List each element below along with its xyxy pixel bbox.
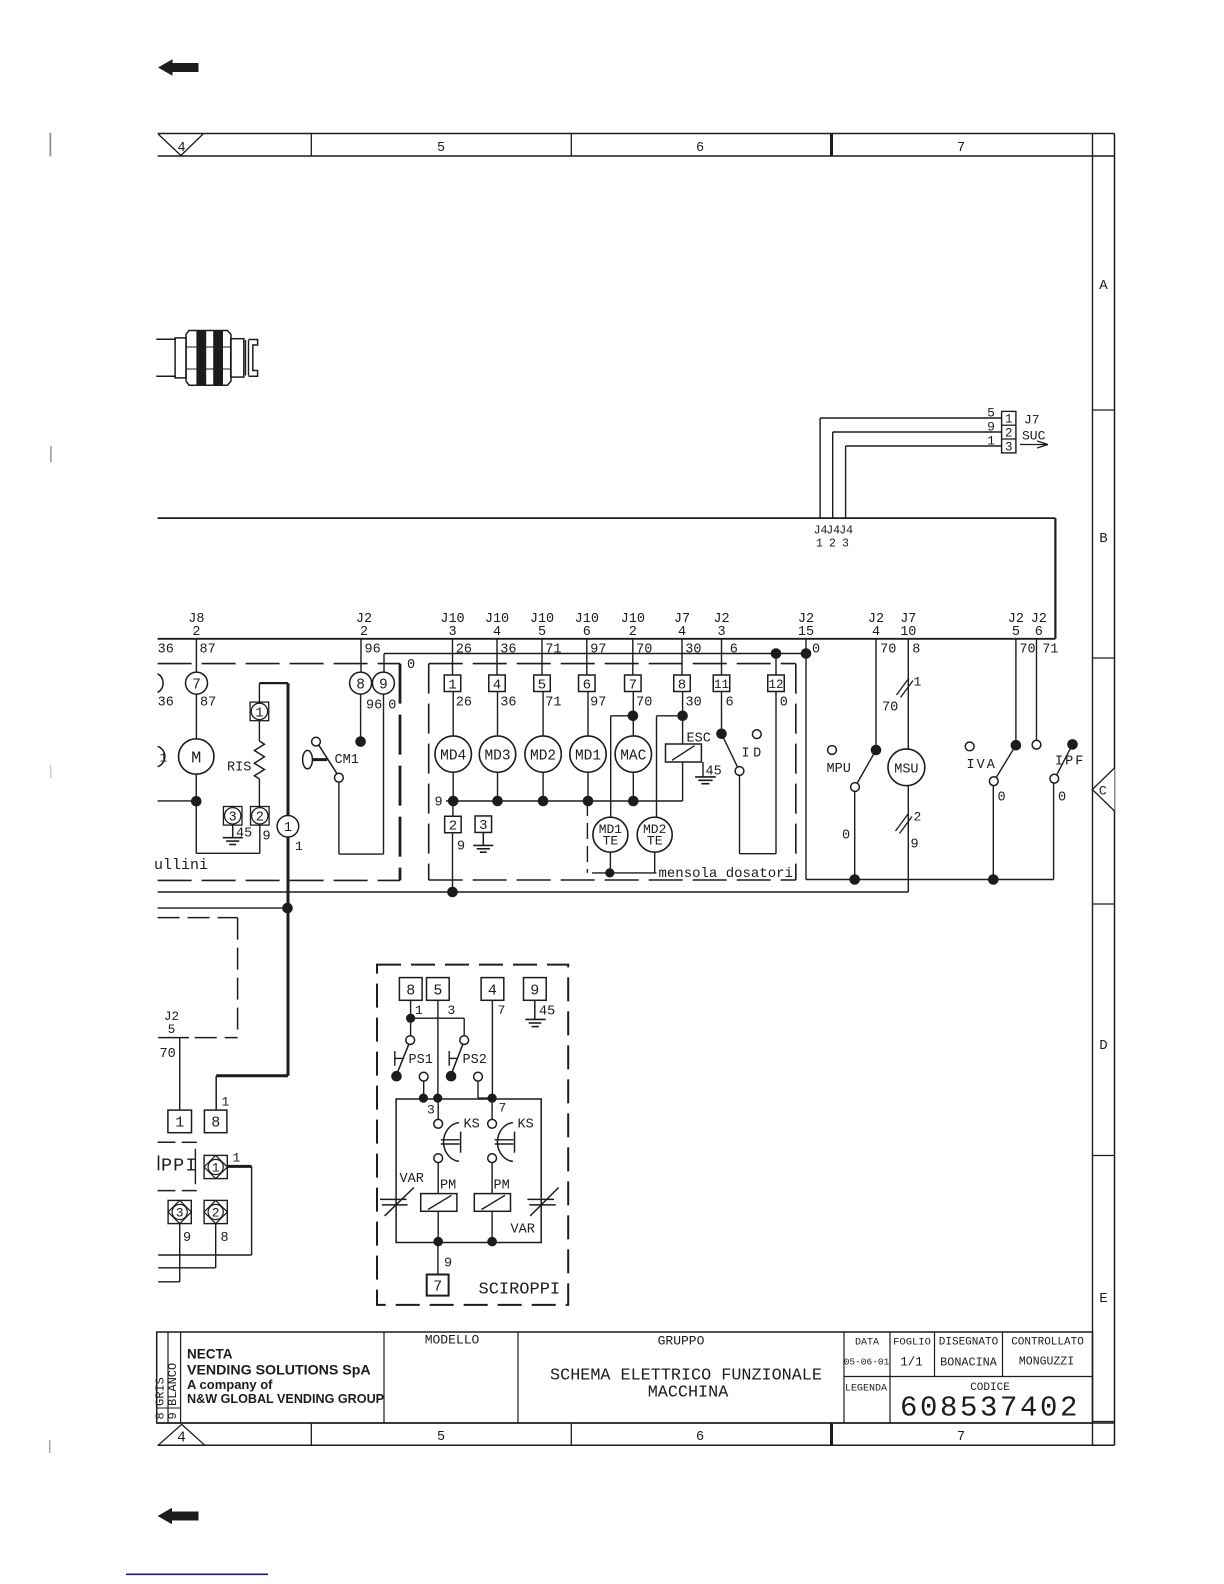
- svg-text:MD1: MD1: [575, 748, 601, 764]
- svg-text:30: 30: [685, 643, 701, 658]
- svg-text:C: C: [1099, 784, 1107, 799]
- pin box 1 (large): [168, 1110, 192, 1133]
- svg-text:1: 1: [160, 751, 168, 766]
- level sensor KS 2: [488, 1099, 534, 1163]
- svg-text:2: 2: [629, 625, 637, 640]
- svg-text:SCIROPPI: SCIROPPI: [479, 1281, 561, 1300]
- motor MD2: [525, 736, 561, 772]
- junction IVA net 0: [988, 874, 999, 885]
- svg-text:5: 5: [1012, 625, 1020, 640]
- motor MD3: [479, 736, 515, 772]
- svg-text:11: 11: [714, 678, 729, 692]
- dashed enclosure gruppi (clipped): [158, 1142, 197, 1190]
- svg-text:8: 8: [221, 1231, 229, 1246]
- svg-text:J7: J7: [1024, 413, 1040, 428]
- resistor RIS: [227, 741, 264, 779]
- thick wire net 1 riser: [287, 683, 290, 815]
- keyed pin diamond 2: [204, 1200, 227, 1223]
- ground at pin 9: [525, 1000, 545, 1026]
- switch IPF: [1032, 739, 1085, 783]
- svg-text:70: 70: [880, 643, 896, 658]
- svg-text:0: 0: [780, 696, 788, 711]
- svg-text:DATA: DATA: [855, 1338, 879, 1349]
- svg-text:1: 1: [914, 675, 922, 690]
- relay ESC: [666, 732, 711, 763]
- wire pin4 drop: [491, 1000, 493, 1098]
- level sensor KS 1: [434, 1099, 480, 1163]
- pin circle 7: [186, 672, 208, 694]
- svg-text:CM1: CM1: [335, 753, 359, 768]
- svg-text:70: 70: [160, 1047, 176, 1062]
- junction MD4 on net 9: [448, 796, 459, 807]
- svg-text:7: 7: [957, 141, 965, 156]
- wire net 0 horizontal: [384, 653, 806, 655]
- svg-text:2: 2: [192, 625, 200, 640]
- svg-text:MPU: MPU: [827, 762, 851, 777]
- svg-text:26: 26: [456, 696, 472, 711]
- svg-text:1: 1: [233, 1151, 241, 1166]
- svg-text:FOGLIO: FOGLIO: [893, 1337, 931, 1349]
- svg-text:30: 30: [686, 696, 702, 711]
- svg-text:1: 1: [448, 677, 456, 693]
- svg-text:4: 4: [493, 625, 501, 640]
- wire pin9 up to net 0: [383, 654, 385, 673]
- svg-text:2: 2: [212, 1206, 220, 1221]
- wire net row B: [158, 907, 288, 909]
- svg-text:8: 8: [406, 983, 415, 1000]
- wire J7-4 to pin 8 box: [681, 639, 683, 675]
- svg-text:4: 4: [177, 1431, 186, 1447]
- wire J7 pin2 to J4-2: [833, 432, 1002, 518]
- svg-text:1: 1: [1005, 413, 1013, 427]
- junction MD1 on net 9: [583, 796, 594, 807]
- svg-text:5: 5: [433, 983, 442, 1000]
- svg-text:6: 6: [730, 643, 738, 658]
- wire M to node: [195, 774, 197, 801]
- svg-text:8: 8: [211, 1115, 220, 1132]
- company block NECTA: [187, 1347, 384, 1406]
- svg-text:7: 7: [957, 1430, 965, 1445]
- junction PM2: [487, 1237, 497, 1247]
- row marker C notch: [1092, 768, 1114, 811]
- wire ESC tap to MD2TE: [657, 716, 683, 818]
- pin circle 9: [372, 672, 394, 694]
- thermal sensor MD2 TE: [637, 817, 672, 852]
- svg-text:70: 70: [1019, 643, 1035, 658]
- svg-text:5: 5: [987, 406, 995, 421]
- svg-text:45: 45: [539, 1005, 555, 1020]
- svg-text:1: 1: [415, 1003, 423, 1018]
- svg-text:6: 6: [1035, 625, 1043, 640]
- wire to pin 7 bottom: [437, 1243, 439, 1275]
- svg-text:3: 3: [427, 1103, 435, 1118]
- wire resistor to boxed2: [258, 779, 260, 807]
- junction on net 0 at J2-15: [801, 648, 812, 659]
- svg-text:9: 9: [435, 796, 443, 811]
- pin box 7: [625, 675, 642, 693]
- svg-text:PM: PM: [494, 1179, 510, 1194]
- label PPI (clipped): [159, 1156, 197, 1177]
- svg-text:12: 12: [768, 678, 783, 692]
- pin circle 8: [350, 672, 372, 694]
- svg-text:2: 2: [914, 810, 922, 825]
- svg-text:5: 5: [538, 677, 546, 693]
- pin box 2 below MD4: [445, 801, 462, 835]
- separator line: [194, 1149, 196, 1184]
- dashed enclosure mensola dosatori: [429, 664, 796, 880]
- junction MD3 on net 9: [492, 796, 503, 807]
- wire MD3 to net 9: [497, 772, 499, 801]
- wire main bus: [158, 638, 1056, 640]
- junction on net 0 at ID return: [771, 648, 782, 659]
- svg-text:6: 6: [583, 677, 591, 693]
- svg-text:BONACINA: BONACINA: [940, 1356, 998, 1370]
- svg-text:05-06-01: 05-06-01: [844, 1357, 890, 1368]
- wire J7-10 drop upper: [907, 639, 909, 749]
- svg-text:RIS: RIS: [227, 761, 251, 776]
- svg-text:mensola dosatori: mensola dosatori: [659, 866, 793, 882]
- svg-text:6: 6: [583, 625, 591, 640]
- svg-text:3: 3: [479, 818, 487, 834]
- motor MSU: [888, 749, 925, 786]
- ground at ESC: [695, 762, 716, 784]
- pin box 5: [534, 675, 551, 693]
- node main board box: [158, 518, 1056, 639]
- dashed enclosure frullini: [158, 664, 400, 881]
- svg-text:9: 9: [457, 840, 465, 855]
- svg-text:ESC: ESC: [687, 732, 711, 747]
- varistor VAR right: [511, 1188, 559, 1238]
- pin boxed-circle 2: [251, 807, 270, 826]
- svg-text:TE: TE: [603, 834, 619, 849]
- wire net 9 horizontal: [446, 800, 683, 802]
- svg-text:1: 1: [222, 1095, 230, 1110]
- svg-text:MSU: MSU: [894, 762, 918, 777]
- junction MAC on net 9: [628, 796, 639, 807]
- svg-text:0: 0: [842, 829, 850, 844]
- svg-text:0: 0: [388, 699, 396, 714]
- svg-text:70: 70: [636, 696, 652, 711]
- nav arrow top-left: [158, 59, 199, 75]
- svg-text:MONGUZZI: MONGUZZI: [1019, 1356, 1074, 1369]
- switch PS1: [391, 1036, 433, 1082]
- conductor-count mark 2: [896, 810, 922, 834]
- junction riser with horizontal net: [282, 903, 293, 914]
- svg-text:KS: KS: [464, 1118, 480, 1133]
- connector labels J4 1 2 3: [814, 525, 854, 551]
- wire boxed1 to resistor: [258, 721, 260, 741]
- svg-text:MACCHINA: MACCHINA: [648, 1384, 729, 1403]
- wire MD1TE to sub-box edge: [609, 852, 611, 873]
- wire boxed1 up to thick riser: [259, 683, 288, 702]
- wire color tag 9 BLANCO: [166, 1363, 180, 1420]
- junction on ESC wire: [677, 711, 688, 722]
- pin box 3 with ground: [473, 816, 493, 852]
- wire J10 to pin 7: [632, 639, 634, 675]
- wire KS2 to PM2: [491, 1163, 493, 1194]
- svg-text:9: 9: [911, 838, 919, 853]
- svg-text:VAR: VAR: [511, 1223, 535, 1238]
- svg-text:KS: KS: [518, 1118, 534, 1133]
- wire MD1 to net 9: [587, 772, 589, 801]
- svg-text:5: 5: [168, 1023, 176, 1037]
- wire MPU to net 0: [854, 791, 856, 879]
- svg-text:MD4: MD4: [440, 748, 466, 764]
- wire PM1 down: [437, 1211, 439, 1242]
- svg-text:87: 87: [200, 643, 216, 658]
- clipped motor circle 1 at page edge: [158, 746, 168, 766]
- svg-text:45: 45: [706, 765, 722, 780]
- svg-text:36: 36: [158, 696, 174, 711]
- wire J2-5 to box 1: [179, 1038, 181, 1111]
- motor MAC: [615, 736, 651, 772]
- junction MD2 on net 9: [538, 796, 549, 807]
- wire pin2 down to net line: [452, 834, 454, 892]
- svg-text:B: B: [1099, 531, 1107, 547]
- svg-text:7: 7: [499, 1101, 507, 1116]
- switch IVA: [965, 740, 1021, 786]
- svg-text:2: 2: [256, 811, 264, 826]
- svg-text:IVA: IVA: [967, 758, 997, 773]
- svg-text:LEGENDA: LEGENDA: [845, 1384, 887, 1395]
- wire J7 pin1 to J4-1: [820, 418, 1002, 518]
- svg-text:J2: J2: [164, 1010, 179, 1024]
- svg-text:2: 2: [1005, 427, 1013, 441]
- svg-text:87: 87: [200, 696, 216, 711]
- thermal sensor MD1 TE: [593, 817, 628, 852]
- svg-text:A: A: [1099, 278, 1108, 294]
- svg-text:1: 1: [175, 1115, 184, 1132]
- svg-text:MD2: MD2: [530, 748, 556, 764]
- svg-text:0: 0: [1058, 791, 1066, 806]
- wire PS1 out: [423, 1081, 425, 1098]
- conductor-count mark 1: [897, 675, 922, 698]
- svg-text:E: E: [1099, 1291, 1107, 1307]
- junction MD1TE: [605, 868, 614, 877]
- wire J10 to pin 4: [496, 639, 498, 675]
- svg-text:1: 1: [284, 821, 292, 836]
- svg-text:M: M: [191, 750, 201, 769]
- pin box 4: [489, 675, 506, 693]
- wire J10 to pin 5: [541, 639, 543, 675]
- svg-text:7: 7: [498, 1003, 506, 1018]
- wire diamond 2 return: [158, 1224, 216, 1268]
- pin box 8: [399, 978, 422, 1001]
- wire IVA to net 0: [992, 786, 994, 880]
- scanner fold ticks left margin: [50, 133, 51, 1453]
- wire J2-3 to pin 11: [721, 639, 723, 675]
- svg-text:1: 1: [295, 839, 303, 854]
- wire MAC to net 9: [632, 772, 634, 801]
- svg-text:70: 70: [882, 701, 898, 716]
- keyed pin diamond 3: [168, 1200, 191, 1223]
- dashed enclosure lower-left: [158, 918, 238, 1038]
- svg-text:VAR: VAR: [400, 1172, 424, 1187]
- svg-text:97: 97: [590, 696, 606, 711]
- svg-text:TE: TE: [647, 834, 663, 849]
- clipped component circle at page edge: [158, 674, 163, 693]
- svg-text:MAC: MAC: [620, 748, 646, 764]
- svg-text:ID: ID: [742, 747, 765, 762]
- wire PS2 out: [478, 1081, 492, 1098]
- svg-text:70: 70: [636, 643, 652, 658]
- wire IPF to net 0: [1053, 783, 1055, 879]
- svg-text:4: 4: [678, 625, 686, 640]
- svg-text:NECTA: NECTA: [187, 1347, 233, 1362]
- title block labels: [425, 1333, 1085, 1395]
- svg-text:PP: PP: [161, 1156, 185, 1177]
- junction MPU net 0: [849, 874, 860, 885]
- svg-text:1: 1: [255, 706, 263, 721]
- svg-text:5: 5: [538, 625, 546, 640]
- junction at M bottom: [191, 796, 202, 807]
- svg-text:A company of: A company of: [187, 1377, 273, 1392]
- svg-text:9: 9: [987, 420, 995, 435]
- wire diamond 3 return: [158, 1224, 180, 1282]
- ground at boxed3: [223, 825, 243, 844]
- svg-text:8: 8: [912, 643, 920, 658]
- junction net row A: [447, 887, 458, 898]
- switch MPU: [827, 745, 882, 792]
- svg-text:3: 3: [448, 625, 456, 640]
- svg-text:0: 0: [407, 658, 415, 673]
- svg-text:9: 9: [379, 677, 388, 693]
- pin box 8: [674, 675, 691, 693]
- svg-text:PS2: PS2: [463, 1053, 487, 1068]
- wire pin 4 to MD3: [497, 692, 499, 737]
- wire MSU lower: [907, 786, 909, 892]
- svg-text:608537402: 608537402: [900, 1392, 1080, 1425]
- wire J10 to pin 1: [452, 639, 454, 675]
- wire MD4 to net 9: [452, 772, 454, 801]
- pin box 5: [427, 978, 450, 1001]
- wire J2-2 to pin 8: [360, 639, 362, 672]
- svg-text:45: 45: [236, 827, 252, 842]
- connector J2 pin 5 lower: [158, 1010, 189, 1038]
- svg-text:3: 3: [229, 811, 237, 826]
- wire net row A: [158, 891, 909, 893]
- wire pin8 to ESC: [682, 692, 684, 745]
- wire PM2 down: [491, 1211, 493, 1242]
- svg-text:26: 26: [456, 643, 472, 658]
- svg-text:96: 96: [366, 699, 382, 714]
- motor MD4: [435, 736, 471, 772]
- switch PS2: [446, 1036, 487, 1082]
- svg-text:2: 2: [449, 819, 457, 835]
- svg-text:5: 5: [437, 141, 445, 156]
- wire pin8 stub with terminal dot: [355, 694, 366, 747]
- svg-text:9: 9: [530, 983, 539, 1000]
- svg-text:7: 7: [192, 677, 201, 693]
- pin box 7 bottom: [427, 1275, 449, 1296]
- wire MD2 to net 9: [542, 772, 544, 801]
- junction at pin8: [406, 1014, 415, 1023]
- pin box 8 (large): [204, 1110, 227, 1133]
- wire pin 1 to MD4: [452, 692, 454, 737]
- svg-text:36: 36: [500, 696, 516, 711]
- svg-text:15: 15: [798, 625, 814, 640]
- junctions on pump box top: [419, 1094, 497, 1103]
- svg-text:6: 6: [726, 696, 734, 711]
- svg-text:71: 71: [545, 643, 561, 658]
- motor M: [179, 739, 214, 774]
- svg-text:4: 4: [488, 983, 497, 1000]
- switch CM1: [303, 737, 359, 782]
- svg-text:J4: J4: [839, 525, 853, 538]
- svg-text:3: 3: [717, 625, 725, 640]
- wire J7 pin3 to J4-3: [846, 446, 1002, 518]
- svg-text:9: 9: [166, 1412, 180, 1419]
- wire KS1 to PM1: [437, 1163, 439, 1194]
- svg-text:D: D: [1099, 1038, 1107, 1054]
- wire pin 6 to MD1: [587, 692, 589, 737]
- svg-text:BLANCO: BLANCO: [166, 1363, 180, 1406]
- svg-text:9: 9: [263, 830, 271, 845]
- pin circle 1 on riser: [277, 815, 299, 837]
- dashed enclosure SCIROPPI: [377, 965, 568, 1305]
- svg-text:3: 3: [1005, 441, 1013, 455]
- svg-text:SUC: SUC: [1022, 429, 1046, 444]
- svg-text:10: 10: [900, 625, 916, 640]
- svg-text:4: 4: [872, 625, 880, 640]
- wire J8-2 to pin 7: [195, 639, 197, 672]
- svg-text:2: 2: [829, 538, 836, 551]
- wire pin7 to motor M: [195, 694, 197, 739]
- wire CM1 return: [339, 694, 384, 854]
- svg-text:5: 5: [437, 1430, 445, 1445]
- pin box 12: [768, 675, 785, 692]
- pump PM 1: [421, 1179, 457, 1212]
- junction on MAC wire: [628, 711, 639, 722]
- nav arrow bottom-left: [158, 1508, 199, 1524]
- wire MAC tap to MD1TE: [611, 716, 633, 818]
- title data values: [844, 1356, 1074, 1370]
- wire pin8 branch: [411, 1000, 465, 1035]
- svg-text:9: 9: [183, 1231, 191, 1246]
- svg-text:3: 3: [448, 1003, 456, 1018]
- svg-text:8: 8: [356, 677, 365, 693]
- svg-text:1/1: 1/1: [900, 1356, 923, 1370]
- wire pin 5 to MD2: [542, 692, 544, 737]
- svg-text:96: 96: [365, 643, 381, 658]
- wire J10 to pin 6: [586, 639, 588, 675]
- svg-text:N&W GLOBAL VENDING GROUP: N&W GLOBAL VENDING GROUP: [187, 1392, 384, 1406]
- pin boxed-circle 1: [250, 702, 269, 721]
- svg-text:1: 1: [816, 538, 823, 551]
- svg-text:6: 6: [696, 141, 704, 156]
- wire J2-5 drop: [1015, 639, 1017, 745]
- thick wire net 1 riser lower: [216, 837, 288, 1110]
- arrow at J7 SUC: [1020, 441, 1048, 448]
- svg-text:4: 4: [493, 677, 501, 693]
- svg-text:DISEGNATO: DISEGNATO: [939, 1337, 999, 1349]
- svg-text:7: 7: [433, 1278, 442, 1295]
- svg-text:CONTROLLATO: CONTROLLATO: [1011, 1337, 1084, 1349]
- svg-text:8: 8: [678, 677, 686, 693]
- svg-text:3: 3: [176, 1206, 184, 1221]
- wire M node down and to RIS return: [196, 801, 260, 853]
- junction PM1: [433, 1237, 443, 1247]
- svg-text:1: 1: [987, 434, 995, 449]
- wire J2-15 net 0 drop: [805, 639, 807, 880]
- pump PM 2: [474, 1179, 510, 1212]
- pin box 4: [481, 978, 504, 1001]
- wire pin5 drop: [437, 1000, 439, 1098]
- pump sub-box: [396, 1099, 541, 1243]
- svg-text:6: 6: [696, 1430, 704, 1445]
- svg-text:9: 9: [444, 1257, 452, 1272]
- dashed sub-box TE sensors: [587, 800, 656, 873]
